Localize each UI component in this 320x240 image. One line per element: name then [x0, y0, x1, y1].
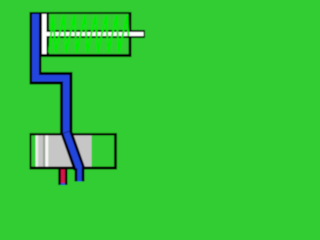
valve V1 diagonal flow path (black edge)	[66, 132, 79, 169]
cylinder C1 interior	[42, 14, 129, 54]
piston right edge	[47, 14, 50, 54]
piston (white)	[42, 14, 47, 54]
valve V1 body outline	[30, 133, 118, 170]
wire: blue pressurized pipe cylinder-to-valve	[32, 14, 70, 135]
port R blue stub under valve (blue)	[77, 167, 82, 182]
valve V1 interior	[32, 136, 115, 167]
piston rod (white)	[47, 32, 144, 36]
return spring	[49, 16, 128, 53]
valve V1 spool (gray slide)	[36, 136, 92, 167]
piston rod (black outline)	[47, 30, 146, 38]
wire: pipe outline from cylinder port to valve (black skeleton)	[30, 12, 73, 135]
cylinder C1 body outline	[40, 12, 132, 57]
valve V1 diagonal flow path (blue)	[66, 133, 79, 168]
port R blue stub under valve (black edge)	[75, 166, 85, 182]
port P red stub under valve	[58, 170, 67, 186]
